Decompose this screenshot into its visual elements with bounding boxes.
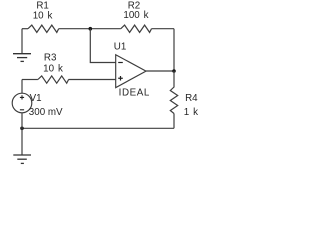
minus mark (V1) [20, 109, 24, 111]
node inverting input junction [89, 27, 93, 31]
wire R3 to op-amp plus input [69, 79, 116, 81]
resistor R1 [28, 25, 59, 32]
svg-text:U1: U1 [114, 42, 127, 53]
ground GND2 (bottom-left) [13, 128, 31, 163]
wire corner to R3 [22, 79, 38, 81]
op-amp U1 [116, 55, 146, 88]
resistor R4 [170, 71, 177, 114]
wire ground to R1 [22, 28, 28, 30]
wire junction down to op-amp minus input [90, 29, 115, 63]
resistor R3 [38, 76, 69, 83]
svg-text:100 k: 100 k [123, 10, 148, 21]
node V1 negative [20, 127, 24, 131]
wire R1 to R2 [59, 28, 121, 30]
svg-text:1 k: 1 k [184, 107, 198, 118]
ground GND1 (top-left) [13, 29, 31, 62]
resistor R2 [121, 25, 152, 32]
plus pin mark [118, 76, 123, 81]
svg-text:R4: R4 [185, 93, 198, 104]
wire feedback vertical (right side down to output) [173, 29, 175, 71]
svg-text:R3: R3 [44, 53, 57, 64]
svg-text:10 k: 10 k [33, 10, 53, 21]
wire op-amp output [146, 70, 174, 72]
svg-text:V1: V1 [30, 93, 42, 104]
wire V1 bottom [21, 113, 23, 129]
node output [172, 69, 176, 73]
wire bottom rail [22, 127, 174, 129]
wire R4 to bottom rail [173, 114, 175, 129]
wire V1 top to corner [21, 80, 23, 94]
source V1 [12, 93, 32, 113]
wire R2 to right corner [152, 28, 175, 30]
minus pin mark [118, 62, 123, 64]
svg-text:10 k: 10 k [43, 64, 63, 75]
svg-text:IDEAL: IDEAL [119, 87, 150, 98]
plus mark (V1) [20, 95, 24, 99]
svg-text:300 mV: 300 mV [29, 107, 63, 118]
